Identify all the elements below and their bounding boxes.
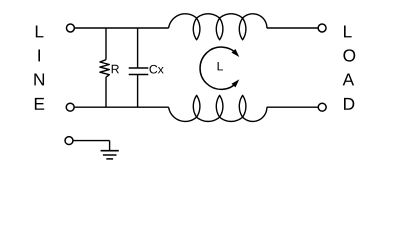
capacitor Cx plates	[129, 67, 149, 69]
flux arrowhead top	[232, 49, 240, 57]
inductor L label	[218, 62, 223, 70]
terminal ground	[65, 137, 73, 145]
node LINE label letter L	[36, 25, 44, 37]
node LINE label letter E	[35, 98, 44, 110]
flux arrowhead bottom	[232, 79, 240, 87]
terminal line top	[66, 24, 74, 32]
node LOAD label letter O	[343, 49, 355, 61]
node LINE label letter I	[38, 49, 40, 61]
wire ground vertical	[109, 141, 111, 151]
wire resistor branch bottom	[105, 77, 107, 107]
wire bottom left	[75, 106, 169, 108]
inductor L bottom winding	[169, 95, 267, 121]
wire resistor branch top	[105, 28, 107, 60]
terminal load top	[318, 24, 326, 32]
resistor R	[100, 60, 109, 77]
terminal line bottom	[66, 103, 74, 111]
wire capacitor branch bottom	[137, 75, 139, 108]
ground symbol	[101, 150, 119, 152]
terminal load bottom	[318, 103, 326, 111]
node LOAD label letter D	[344, 98, 354, 110]
inductor L top winding	[169, 14, 267, 40]
wire top right	[267, 27, 318, 29]
wire capacitor branch top	[137, 28, 139, 68]
node LINE label letter N	[34, 73, 44, 85]
node LOAD label letter L	[344, 25, 352, 37]
capacitor Cx label	[150, 65, 164, 74]
node LOAD label letter A	[343, 73, 354, 85]
flux circulation arc (common-mode flux)	[200, 47, 237, 89]
wire ground horizontal	[73, 140, 110, 142]
resistor R label	[112, 65, 119, 73]
wire bottom right	[267, 106, 318, 108]
wire top left	[75, 27, 169, 29]
